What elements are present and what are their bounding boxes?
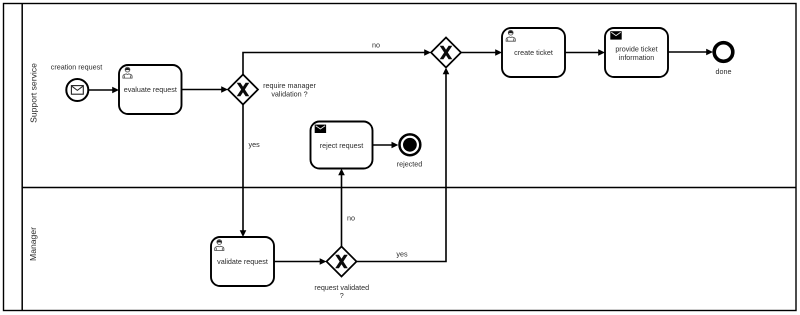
wire provide ticket information to done [668, 49, 713, 56]
wire yes branch G1 down to validate request [240, 105, 260, 238]
task provide ticket information [605, 28, 668, 77]
wire evaluate request to gateway G1 [182, 86, 229, 93]
task evaluate request [119, 65, 182, 114]
task create ticket [502, 28, 565, 77]
gateway G3 request validated [314, 247, 369, 300]
terminate end event rejected [397, 134, 423, 168]
svg-text:information: information [619, 53, 655, 62]
pool label divider [21, 4, 23, 311]
svg-text:create ticket: create ticket [514, 48, 553, 57]
task reject request [311, 122, 373, 169]
svg-text:no: no [347, 214, 355, 223]
svg-text:Manager: Manager [28, 227, 38, 261]
wire no branch G3 up to reject request [338, 169, 355, 247]
wire create ticket to provide ticket information [565, 49, 605, 56]
svg-text:?: ? [340, 291, 344, 300]
svg-text:validation ?: validation ? [271, 90, 307, 99]
gateway G1 require manager validation [228, 75, 316, 105]
wire start to evaluate request [89, 87, 119, 94]
svg-text:validate request: validate request [217, 257, 268, 266]
svg-text:require manager: require manager [263, 81, 316, 90]
wire validate request to gateway G3 [274, 258, 327, 265]
task validate request [211, 237, 274, 286]
svg-text:no: no [372, 41, 380, 50]
svg-text:evaluate request: evaluate request [124, 85, 177, 94]
start event creation request [51, 63, 103, 102]
svg-text:done: done [716, 67, 732, 76]
lane separator [22, 187, 796, 189]
merge gateway G2 [431, 38, 461, 68]
end event done [714, 43, 733, 76]
wire merge gateway G2 to create ticket [461, 49, 502, 56]
svg-text:yes: yes [396, 250, 408, 259]
svg-text:reject request: reject request [320, 141, 364, 150]
svg-text:Support service: Support service [29, 63, 39, 123]
svg-text:yes: yes [249, 140, 261, 149]
svg-text:creation request: creation request [51, 63, 103, 72]
svg-text:rejected: rejected [397, 160, 423, 169]
wire reject request to rejected [373, 142, 399, 149]
wire no branch G1 up to merge gateway G2 [243, 41, 431, 75]
wire yes branch G3 right and up to merge gateway G2 [357, 68, 450, 262]
